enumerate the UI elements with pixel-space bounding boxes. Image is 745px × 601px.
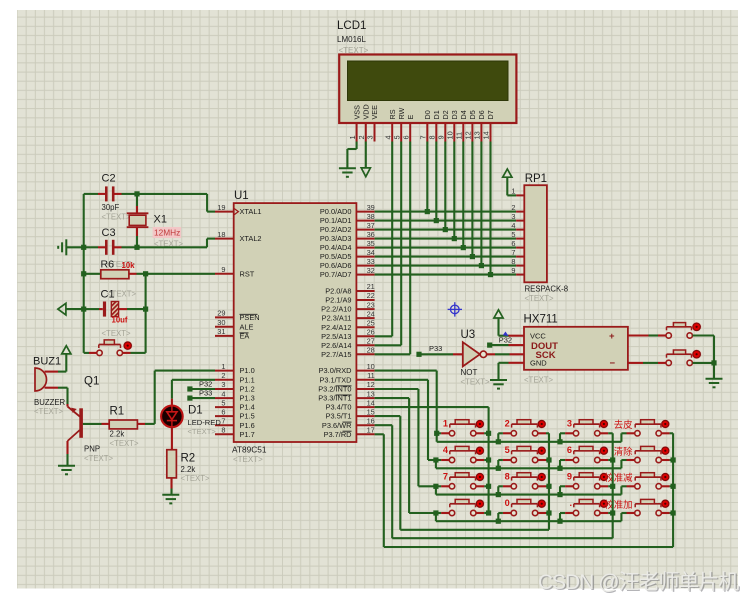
- wire keypad column 1 net (U1 P3.4): [375, 407, 492, 515]
- label "2": [505, 418, 510, 428]
- wire C3/XTAL2 net to U1 pin18: [134, 239, 215, 250]
- wire D0 LCD pin7 to P0.0 bus: [425, 142, 430, 215]
- svg-text:<TEXT>: <TEXT>: [188, 427, 217, 436]
- push button keypad row 2 col 2 "5": [503, 446, 546, 462]
- wire HX711 GND to ground: [499, 363, 525, 380]
- svg-text:9: 9: [437, 135, 446, 139]
- wire HX711 + to sensor button 1: [628, 334, 666, 336]
- wire E line LCD pin6 to U1 P2.7: [375, 142, 411, 355]
- svg-text:12: 12: [367, 380, 375, 389]
- svg-text:P3.0/RXD: P3.0/RXD: [319, 366, 352, 375]
- svg-text:P0.6/AD6: P0.6/AD6: [320, 261, 352, 270]
- wire P0.0 row to RP1 pin 2: [375, 211, 516, 213]
- svg-text:CSDN @汪老师单片机: CSDN @汪老师单片机: [538, 571, 739, 594]
- svg-text:6: 6: [401, 135, 410, 139]
- wire keypad row 2 net (U1 P3.1): [375, 380, 627, 471]
- svg-text:39: 39: [367, 203, 375, 212]
- svg-text:NOT: NOT: [461, 368, 478, 377]
- svg-text:GND: GND: [530, 359, 547, 368]
- svg-text:D4: D4: [459, 110, 468, 119]
- svg-text:<TEXT>: <TEXT>: [525, 294, 554, 303]
- power terminal (HX711 VCC arrow): [494, 310, 503, 336]
- push button keypad row 4 col 2 "0": [503, 499, 546, 515]
- svg-text:10k: 10k: [122, 261, 136, 270]
- svg-text:13: 13: [473, 131, 482, 139]
- svg-text:C3: C3: [102, 227, 116, 239]
- wire P0.2 row to RP1 pin 4: [375, 229, 516, 231]
- svg-text:9: 9: [511, 266, 515, 275]
- svg-text:30pF: 30pF: [102, 203, 120, 212]
- net label P32 stub at U1 P1.2: [187, 379, 215, 391]
- svg-text:<TEXT>: <TEXT>: [181, 474, 210, 483]
- wire VSS pin1 to ground: [347, 142, 356, 169]
- ground (sideways, C3 net): [58, 239, 83, 255]
- svg-text:P1.0: P1.0: [240, 366, 255, 375]
- push button keypad row 4 col 3 ".": [565, 499, 608, 515]
- svg-text:P0.2/AD2: P0.2/AD2: [320, 225, 352, 234]
- svg-text:LED-RED: LED-RED: [188, 418, 222, 427]
- svg-text:P0.5/AD5: P0.5/AD5: [320, 252, 352, 261]
- wire D2 LCD pin9 to P0.2 bus: [443, 142, 448, 233]
- push button (sensor -): [666, 350, 692, 366]
- svg-text:X1: X1: [154, 214, 167, 226]
- label "0": [505, 498, 510, 508]
- wire Q1 base to R1: [83, 423, 109, 425]
- label "清除": [614, 446, 633, 457]
- label "5": [505, 445, 510, 455]
- svg-text:24: 24: [367, 309, 375, 318]
- svg-text:C2: C2: [102, 173, 116, 185]
- wire P0.6 row to RP1 pin 8: [375, 265, 516, 267]
- red actuator dot (keypad 2,4): [661, 446, 670, 455]
- svg-text:D1: D1: [432, 110, 441, 119]
- wire keypad column 2 net (U1 P3.5): [375, 416, 552, 530]
- svg-text:R2: R2: [181, 453, 196, 465]
- net label P32 wire to HX711 DOUT: [487, 332, 524, 348]
- wire D1 LCD pin8 to P0.1 bus: [434, 142, 439, 224]
- ground (LCD VSS): [339, 168, 356, 177]
- svg-text:D6: D6: [477, 110, 486, 119]
- svg-text:26: 26: [367, 328, 375, 337]
- svg-text:LM016L: LM016L: [337, 35, 366, 44]
- svg-text:P3.5/T1: P3.5/T1: [326, 412, 352, 421]
- svg-text:33: 33: [367, 257, 375, 266]
- svg-text:1: 1: [221, 362, 225, 371]
- ground (R2): [162, 495, 179, 504]
- power terminal (BUZ1 supply arrow): [62, 346, 71, 372]
- red actuator dot (keypad 1,4): [661, 420, 670, 429]
- svg-text:34: 34: [367, 248, 375, 257]
- power terminal (RP1 pull-up supply arrow): [503, 169, 512, 177]
- svg-text:−: −: [610, 358, 616, 369]
- svg-text:VCC: VCC: [530, 331, 546, 340]
- label "7": [443, 471, 448, 481]
- label "去皮": [614, 419, 633, 430]
- label "1": [443, 418, 448, 428]
- svg-text:P32: P32: [499, 336, 512, 345]
- svg-text:P0.4/AD4: P0.4/AD4: [320, 243, 352, 252]
- svg-text:BUZ1: BUZ1: [33, 356, 61, 368]
- svg-text:35: 35: [367, 239, 375, 248]
- push button keypad row 3 col 4 "校准减": [627, 473, 670, 489]
- wire RP1 pin1 to power: [507, 177, 516, 195]
- label "校准加": [604, 499, 632, 510]
- wire P0.4 row to RP1 pin 6: [375, 247, 516, 249]
- svg-text:HX711: HX711: [524, 314, 558, 326]
- svg-text:校准加: 校准加: [604, 499, 632, 510]
- svg-text:VEE: VEE: [370, 105, 379, 120]
- svg-text:2: 2: [505, 418, 510, 428]
- svg-text:2.2k: 2.2k: [110, 430, 125, 439]
- label "9": [567, 471, 572, 481]
- svg-text:37: 37: [367, 221, 375, 230]
- svg-text:2: 2: [221, 371, 225, 380]
- svg-text:D5: D5: [468, 110, 477, 119]
- svg-text:1: 1: [511, 186, 515, 195]
- svg-text:Q1: Q1: [84, 376, 99, 388]
- wire RW line LCD pin5 to U1 P2.6: [375, 142, 402, 346]
- svg-text:P2.0/A8: P2.0/A8: [325, 287, 351, 296]
- svg-text:P0.1/AD1: P0.1/AD1: [320, 216, 352, 225]
- svg-text:RS: RS: [388, 109, 397, 119]
- svg-text:U3: U3: [461, 329, 476, 341]
- svg-text:<TEXT>: <TEXT>: [102, 329, 131, 338]
- svg-text:P2.4/A12: P2.4/A12: [321, 323, 351, 332]
- svg-text:30: 30: [217, 318, 225, 327]
- push button keypad row 1 col 2 "2": [503, 420, 546, 436]
- wire C2/XTAL1 net to U1 pin19: [134, 191, 215, 211]
- svg-text:31: 31: [217, 327, 225, 336]
- svg-text:P3.4/T0: P3.4/T0: [326, 403, 352, 412]
- svg-text:5: 5: [392, 135, 401, 139]
- wire VCC to HX711: [499, 335, 525, 337]
- wire keypad row 1 net (U1 P3.0): [375, 371, 627, 445]
- svg-text:P0.7/AD7: P0.7/AD7: [320, 270, 352, 279]
- red actuator dot (keypad 4,2): [537, 499, 546, 508]
- svg-text:RP1: RP1: [525, 173, 547, 185]
- svg-text:P33: P33: [199, 389, 212, 398]
- svg-text:RESPACK-8: RESPACK-8: [525, 285, 569, 294]
- svg-text:去皮: 去皮: [614, 419, 633, 430]
- svg-text:22: 22: [367, 291, 375, 300]
- svg-text:P2.3/A11: P2.3/A11: [322, 314, 352, 323]
- label "3": [567, 418, 572, 428]
- svg-text:10: 10: [446, 131, 455, 139]
- push button (reset): [84, 340, 146, 356]
- red actuator dot (keypad 4,1): [475, 499, 484, 508]
- svg-text:8: 8: [221, 426, 225, 435]
- svg-text:12: 12: [464, 131, 473, 139]
- buzzer BUZ1: [33, 356, 68, 417]
- wire U1 P1.1 to LED D1: [172, 380, 215, 406]
- red actuator dot (keypad 3,3): [599, 473, 608, 482]
- svg-text:P2.5/A13: P2.5/A13: [321, 332, 351, 341]
- svg-text:10uf: 10uf: [112, 315, 128, 324]
- svg-text:5: 5: [505, 445, 510, 455]
- push button (sensor +): [666, 323, 692, 339]
- svg-text:RST: RST: [240, 269, 255, 278]
- svg-text:P32: P32: [199, 379, 212, 388]
- wire sensor buttons to ground: [693, 336, 717, 379]
- resistor pack RP1 RESPACK-8: [511, 173, 568, 303]
- capacitor C3: [84, 227, 137, 255]
- svg-text:R1: R1: [110, 406, 125, 418]
- svg-text:BUZZER: BUZZER: [34, 398, 66, 407]
- push button keypad row 1 col 4 "去皮": [627, 420, 670, 436]
- push button keypad row 3 col 2 "8": [503, 473, 546, 489]
- svg-text:3: 3: [366, 135, 375, 139]
- red actuator dot (keypad 2,1): [475, 446, 484, 455]
- svg-text:7: 7: [443, 471, 448, 481]
- svg-text:ALE: ALE: [240, 322, 254, 331]
- svg-text:D2: D2: [441, 110, 450, 119]
- svg-text:23: 23: [367, 300, 375, 309]
- svg-text:8: 8: [428, 135, 437, 139]
- svg-text:6: 6: [221, 407, 225, 416]
- svg-text:38: 38: [367, 212, 375, 221]
- svg-text:7: 7: [511, 248, 515, 257]
- svg-text:P0.0/AD0: P0.0/AD0: [320, 207, 352, 216]
- LCD display LCD1 LM016L: [337, 20, 516, 142]
- svg-text:21: 21: [367, 282, 375, 291]
- svg-text:<TEXT>: <TEXT>: [34, 407, 63, 416]
- power terminal (C1 left, arrow): [58, 303, 84, 315]
- svg-text:8: 8: [511, 257, 515, 266]
- inverter U3 NOT: [461, 329, 490, 386]
- svg-text:3: 3: [511, 212, 515, 221]
- svg-text:VSS: VSS: [352, 105, 361, 120]
- svg-text:11: 11: [455, 132, 464, 140]
- svg-text:16: 16: [367, 416, 375, 425]
- svg-text:18: 18: [217, 230, 225, 239]
- node: right vertical rail (R6-C1-button): [143, 274, 148, 353]
- svg-text:LCD1: LCD1: [337, 20, 366, 32]
- svg-text:D0: D0: [423, 110, 432, 119]
- net label P33 wire to U3 input: [416, 344, 462, 357]
- svg-text:19: 19: [217, 203, 225, 212]
- svg-text:P1.5: P1.5: [240, 412, 255, 421]
- svg-text:P2.7/A15: P2.7/A15: [321, 350, 351, 359]
- node: left vertical rail (C2-C3-R6-C1-button): [81, 194, 86, 353]
- svg-text:<TEXT>: <TEXT>: [84, 454, 113, 463]
- svg-text:<TEXT>: <TEXT>: [461, 377, 490, 386]
- svg-text:11: 11: [367, 371, 375, 380]
- svg-text:17: 17: [367, 426, 375, 435]
- svg-text:P0.3/AD3: P0.3/AD3: [320, 234, 352, 243]
- microcontroller U1 AT89C51: [215, 190, 375, 464]
- wire RST net to U1 pin9: [143, 271, 215, 276]
- svg-text:PNP: PNP: [84, 445, 100, 454]
- push button keypad row 4 col 1 "": [441, 499, 484, 515]
- svg-text:P1.1: P1.1: [240, 375, 255, 384]
- svg-text:2: 2: [511, 203, 515, 212]
- push button keypad row 3 col 3 "9": [565, 473, 608, 489]
- svg-text:C1: C1: [101, 289, 115, 301]
- svg-text:15: 15: [367, 407, 375, 416]
- svg-text:2: 2: [357, 135, 366, 139]
- wire keypad column 3 net (U1 P3.6): [375, 425, 616, 538]
- svg-text:4: 4: [221, 389, 225, 398]
- label "4": [443, 445, 449, 455]
- wire HX711 - to sensor button 2: [628, 362, 666, 364]
- wire keypad row 3 net (U1 P3.2): [375, 389, 627, 497]
- wire P0.1 row to RP1 pin 3: [375, 220, 516, 222]
- wire P0.5 row to RP1 pin 7: [375, 256, 516, 258]
- svg-text:28: 28: [367, 346, 375, 355]
- svg-text:P2.2/A10: P2.2/A10: [321, 305, 351, 314]
- svg-text:P1.2: P1.2: [240, 385, 255, 394]
- svg-text:25: 25: [367, 318, 375, 327]
- svg-text:4: 4: [383, 135, 392, 139]
- svg-text:RW: RW: [397, 107, 406, 119]
- red actuator dot (keypad 3,2): [537, 473, 546, 482]
- svg-text:P2.6/A14: P2.6/A14: [321, 341, 351, 350]
- wire D4 LCD pin11 to P0.4 bus: [461, 142, 466, 251]
- net label P33 stub at U1 P1.3: [187, 389, 215, 401]
- svg-text:1: 1: [348, 135, 357, 139]
- svg-text:13: 13: [367, 389, 375, 398]
- push button keypad row 2 col 3 "6": [565, 446, 608, 462]
- svg-text:P1.4: P1.4: [240, 403, 255, 412]
- wire U3 output to HX711 SCK: [487, 353, 524, 355]
- svg-text:AT89C51: AT89C51: [232, 445, 267, 455]
- red actuator dot (keypad 4,3): [599, 499, 608, 508]
- wire R1 to U1 P1.0: [155, 371, 215, 424]
- resistor R1 2.2k: [109, 406, 155, 449]
- svg-text:2.2k: 2.2k: [181, 465, 196, 474]
- svg-text:D7: D7: [486, 110, 495, 119]
- transistor Q1 PNP: [68, 376, 114, 466]
- svg-text:3: 3: [221, 380, 225, 389]
- svg-text:VDD: VDD: [362, 104, 371, 119]
- svg-text:D3: D3: [450, 110, 459, 119]
- svg-text:4: 4: [443, 445, 449, 455]
- wire RS line LCD pin4 to U1 P2.5: [375, 142, 393, 337]
- svg-text:1: 1: [443, 418, 448, 428]
- push button keypad row 2 col 4 "清除": [627, 446, 670, 462]
- resistor R2 2.2k: [167, 427, 210, 495]
- svg-text:XTAL1: XTAL1: [240, 207, 262, 216]
- svg-text:.: .: [569, 498, 572, 508]
- red actuator dot (keypad 1,2): [537, 420, 546, 429]
- label ".": [569, 498, 572, 508]
- svg-text:E: E: [406, 115, 415, 120]
- svg-text:12MHz: 12MHz: [154, 228, 180, 238]
- svg-text:9: 9: [567, 471, 572, 481]
- red actuator dot (reset button): [123, 341, 132, 350]
- capacitor C2 30pF: [84, 173, 137, 222]
- svg-text:校准减: 校准减: [604, 472, 633, 483]
- svg-text:P1.7: P1.7: [240, 430, 255, 439]
- svg-text:P1.6: P1.6: [240, 421, 255, 430]
- svg-text:27: 27: [367, 337, 375, 346]
- wire P0.3 row to RP1 pin 5: [375, 238, 516, 240]
- resistor R6 10k: [84, 259, 146, 279]
- wire D6 LCD pin13 to P0.6 bus: [479, 142, 484, 269]
- svg-text:9: 9: [221, 265, 225, 274]
- svg-text:<TEXT>: <TEXT>: [524, 376, 553, 385]
- svg-text:P33: P33: [429, 344, 442, 353]
- push button keypad row 3 col 1 "7": [441, 473, 484, 489]
- crystal X1 12MHz: [127, 194, 184, 249]
- push button keypad row 1 col 1 "1": [441, 420, 484, 436]
- wire D5 LCD pin12 to P0.5 bus: [470, 142, 475, 260]
- svg-text:<TEXT>: <TEXT>: [102, 212, 131, 221]
- red actuator dot (keypad 3,1): [475, 473, 484, 482]
- LED D1 LED-RED: [161, 405, 221, 437]
- svg-text:<TEXT>: <TEXT>: [110, 439, 139, 448]
- red actuator dot (keypad 3,4): [661, 473, 670, 482]
- svg-text:P3.1/TXD: P3.1/TXD: [319, 375, 351, 384]
- red actuator dot (keypad 1,1): [475, 420, 484, 429]
- label "8": [505, 471, 510, 481]
- power terminal (LCD VDD, down arrow): [361, 142, 370, 177]
- svg-text:P2.1/A9: P2.1/A9: [325, 296, 351, 305]
- wire D7 LCD pin14 to P0.7 bus: [488, 142, 493, 278]
- svg-text:14: 14: [367, 398, 375, 407]
- svg-text:7: 7: [221, 416, 225, 425]
- ground (HX711 GND): [490, 380, 507, 389]
- svg-text:4: 4: [511, 221, 515, 230]
- svg-text:14: 14: [482, 131, 491, 139]
- watermark CSDN: [538, 571, 741, 595]
- red actuator dot (keypad 1,3): [599, 420, 608, 429]
- svg-text:5: 5: [511, 230, 515, 239]
- ground (Q1 collector): [58, 466, 75, 475]
- svg-text:5: 5: [221, 398, 225, 407]
- red actuator dot (sensor - button): [692, 350, 701, 359]
- red actuator dot (keypad 2,2): [537, 446, 546, 455]
- svg-text:36: 36: [367, 230, 375, 239]
- svg-text:XTAL2: XTAL2: [240, 234, 262, 243]
- capacitor C1 10uf (electrolytic): [84, 289, 146, 339]
- svg-text:+: +: [609, 331, 615, 342]
- label "6": [567, 445, 572, 455]
- push button keypad row 2 col 1 "4": [441, 446, 484, 462]
- svg-text:6: 6: [511, 239, 515, 248]
- svg-text:32: 32: [367, 266, 375, 275]
- push button keypad row 4 col 4 "校准加": [627, 499, 670, 515]
- blue origin marker: [448, 302, 462, 316]
- wire keypad column 4 net (U1 P3.7): [375, 433, 676, 547]
- svg-text:D1: D1: [188, 405, 203, 417]
- push button keypad row 1 col 3 "3": [565, 420, 608, 436]
- label "校准减": [604, 472, 633, 483]
- svg-text:P1.3: P1.3: [240, 394, 255, 403]
- wire P0.7 row to RP1 pin 9: [375, 274, 516, 276]
- svg-text:7: 7: [419, 135, 428, 139]
- red actuator dot (keypad 4,4): [661, 499, 670, 508]
- wire D3 LCD pin10 to P0.3 bus: [452, 142, 457, 242]
- ground (sensor net): [706, 379, 723, 388]
- svg-text:3: 3: [567, 418, 572, 428]
- wire keypad row 4 net (U1 P3.3): [375, 398, 627, 524]
- svg-text:<TEXT>: <TEXT>: [233, 455, 263, 464]
- svg-text:29: 29: [217, 309, 225, 318]
- svg-text:8: 8: [505, 471, 510, 481]
- load cell module HX711: [524, 314, 628, 385]
- svg-text:6: 6: [567, 445, 572, 455]
- svg-text:清除: 清除: [614, 446, 633, 457]
- svg-text:0: 0: [505, 498, 510, 508]
- red actuator dot (keypad 2,3): [599, 446, 608, 455]
- svg-text:R6: R6: [101, 259, 115, 271]
- svg-text:U1: U1: [234, 190, 249, 202]
- red actuator dot (sensor + button): [692, 322, 701, 331]
- svg-text:10: 10: [367, 362, 375, 371]
